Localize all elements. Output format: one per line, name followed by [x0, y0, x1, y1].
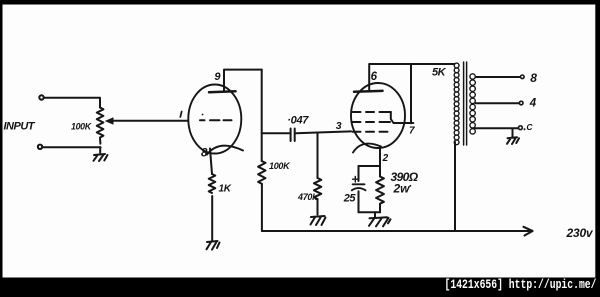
V1 grid (dashed) — [200, 119, 232, 121]
stray ink dot — [202, 114, 204, 116]
tube V1 envelope — [188, 85, 241, 154]
V1 plate lead and top wire — [224, 70, 262, 91]
V1 plate bar — [209, 91, 236, 92]
svg-text:2w: 2w — [393, 182, 411, 196]
V2 screen grid (dashed) — [353, 121, 391, 123]
svg-text:9: 9 — [214, 71, 221, 83]
cap C2 upper lead — [358, 166, 360, 181]
wire 1K to ground — [211, 196, 213, 241]
V2 control grid (dashed) — [353, 131, 388, 133]
wire 470K to ground — [317, 200, 319, 215]
ground under cathode network — [369, 217, 391, 226]
svg-text:470k: 470k — [297, 192, 318, 202]
svg-text:4: 4 — [529, 97, 537, 109]
resistor 470K — [314, 178, 321, 199]
pot lead to ground — [99, 147, 101, 152]
capacitor C2 25uF plates — [352, 184, 366, 190]
cap C2 lower lead — [358, 191, 360, 212]
svg-text:2: 2 — [382, 153, 389, 164]
pin 1 label — [180, 112, 181, 118]
resistor R4 390 ohm — [376, 177, 384, 213]
ground at C tap — [507, 137, 519, 144]
svg-text:25: 25 — [343, 192, 357, 204]
svg-text:C: C — [526, 122, 533, 132]
V2 cathode arc — [353, 144, 381, 153]
potentiometer wiper arrow — [112, 120, 188, 122]
svg-text:[1421x656] http://upic.me/: [1421x656] http://upic.me/ — [445, 278, 597, 292]
transformer T1 secondary coil — [470, 74, 475, 134]
svg-text:5K: 5K — [432, 66, 447, 78]
C tap ground stub — [512, 129, 514, 138]
svg-text:·047: ·047 — [287, 114, 309, 126]
svg-text:230v: 230v — [566, 226, 594, 240]
V1 cathode arc — [207, 146, 243, 155]
ground under potentiometer — [94, 154, 108, 161]
resistor 1K — [209, 174, 216, 193]
frame left border — [0, 0, 3, 278]
svg-text:1K: 1K — [219, 184, 232, 195]
footer black bar — [0, 278, 600, 297]
secondary tap 4 wire — [476, 102, 520, 104]
plate-node vertical wire (x262) — [261, 70, 263, 231]
transformer core — [464, 62, 467, 145]
svg-text:INPUT: INPUT — [4, 121, 36, 133]
frame top border — [0, 0, 600, 5]
potentiometer R1 100K — [97, 108, 104, 144]
stub to ground — [374, 212, 376, 217]
ground under 470K — [311, 216, 326, 225]
wire cap to V2 grid — [296, 131, 351, 133]
V2 suppressor grid (dashed) — [353, 111, 391, 113]
input terminal bottom — [38, 145, 42, 149]
resistor 390 ohm lead — [379, 166, 381, 177]
svg-text:7: 7 — [409, 126, 415, 137]
svg-text:8: 8 — [201, 148, 208, 160]
frame right border — [595, 0, 600, 278]
wire input bottom to pot — [43, 146, 101, 148]
screen tie wire to top rail — [391, 64, 414, 123]
transformer T1 primary coil — [454, 63, 459, 145]
input terminal top — [39, 95, 43, 99]
svg-text:3: 3 — [336, 120, 342, 132]
secondary tap C wire — [475, 127, 519, 129]
V2 plate bar — [354, 91, 383, 92]
svg-text:100K: 100K — [269, 161, 291, 171]
wire down to 470K — [317, 133, 319, 179]
plus sign — [353, 177, 358, 183]
V2 cathode lead — [379, 147, 381, 167]
cathode network top wire — [359, 165, 381, 167]
svg-text:100K: 100K — [71, 121, 92, 131]
transformer primary drop to rail — [454, 142, 456, 231]
terminal 8 — [521, 75, 525, 79]
V1 cathode lead — [210, 149, 212, 175]
wire input top to pot — [44, 98, 100, 108]
capacitor C1 .047 plates — [291, 129, 295, 142]
cathode network bottom wire — [359, 211, 381, 213]
secondary tap 8 wire — [476, 76, 521, 78]
svg-text:6: 6 — [371, 71, 378, 83]
ground under 1K — [207, 241, 220, 250]
resistor 100K plate load — [258, 161, 265, 184]
V2 plate lead and top rail to transformer — [369, 64, 454, 91]
terminal C — [519, 126, 523, 130]
tap C dot — [524, 128, 526, 130]
svg-text:8: 8 — [530, 71, 537, 85]
wire plate node to coupling cap — [262, 132, 290, 134]
terminal 4 — [519, 101, 523, 105]
ink dot after 2w — [410, 185, 412, 187]
tube V2 envelope — [351, 83, 405, 148]
B+ rail 230v — [262, 230, 531, 232]
